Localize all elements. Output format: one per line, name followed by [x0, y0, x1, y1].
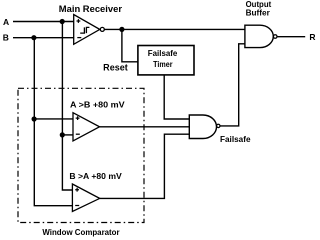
svg-text:Reset: Reset: [103, 63, 128, 73]
svg-text:Window Comparator: Window Comparator: [42, 227, 120, 237]
svg-text:Failsafe: Failsafe: [220, 135, 251, 144]
svg-text:R: R: [309, 32, 315, 42]
svg-text:Failsafe: Failsafe: [148, 49, 178, 58]
svg-text:A >B +80 mV: A >B +80 mV: [70, 100, 125, 110]
svg-text:B: B: [3, 33, 9, 43]
svg-text:Buffer: Buffer: [246, 9, 270, 18]
svg-text:B >A +80 mV: B >A +80 mV: [69, 171, 122, 181]
svg-text:Main Receiver: Main Receiver: [59, 4, 123, 14]
svg-text:Timer: Timer: [153, 60, 172, 69]
svg-text:A: A: [3, 17, 9, 27]
